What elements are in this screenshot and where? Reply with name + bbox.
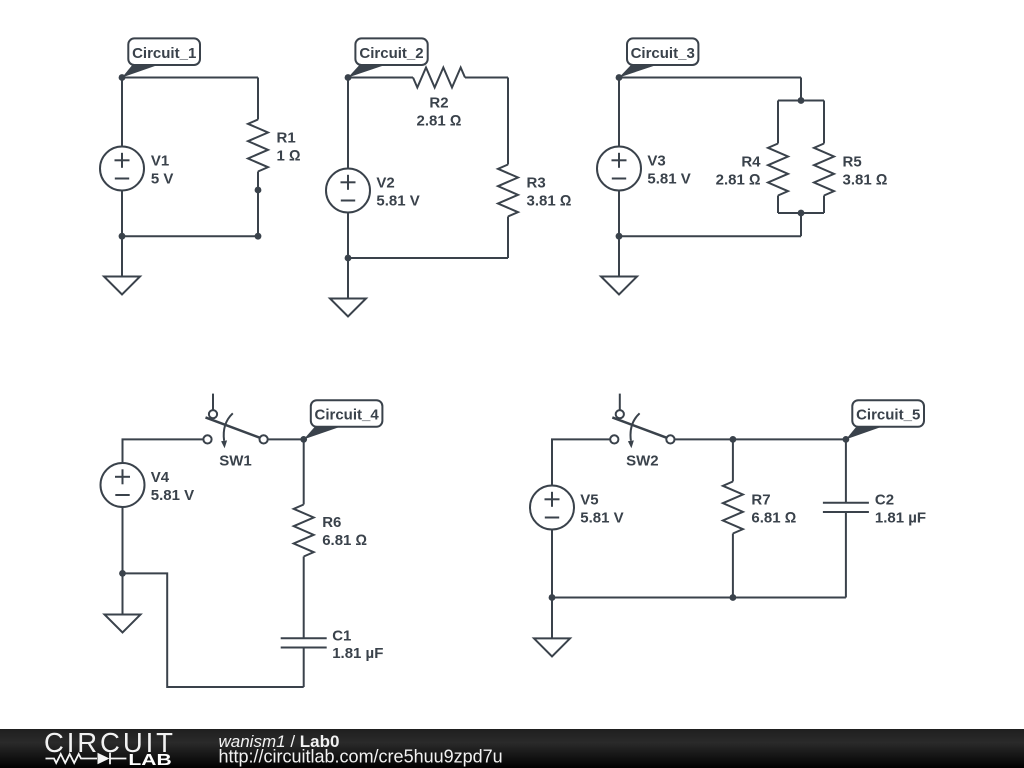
svg-text:Circuit_4: Circuit_4	[314, 407, 379, 424]
svg-text:3.81 Ω: 3.81 Ω	[843, 172, 888, 189]
wire right upper C1	[257, 78, 259, 120]
svg-text:V1: V1	[151, 153, 169, 170]
wire R4 bottom lead	[777, 196, 779, 214]
node dot label anchor C1	[119, 74, 126, 81]
svg-text:V3: V3	[647, 153, 665, 170]
svg-text:5.81 V: 5.81 V	[580, 510, 623, 527]
node dot bottom R7	[730, 594, 737, 601]
wire right lower C3	[800, 213, 802, 236]
wire parallel bottom bar C3	[778, 212, 824, 214]
svg-text:3.81 Ω: 3.81 Ω	[527, 193, 572, 210]
wire right upper C2	[507, 78, 509, 165]
svg-text:Circuit_3: Circuit_3	[631, 45, 695, 62]
label V5	[580, 492, 623, 527]
wire C2 bottom lead	[845, 512, 847, 598]
node dot below R1	[255, 187, 262, 194]
wire bottom C5	[552, 597, 846, 599]
logo resistor-diode glyph	[46, 753, 127, 765]
capacitor C2	[823, 503, 869, 512]
svg-text:V2: V2	[376, 175, 394, 192]
svg-text:SW1: SW1	[219, 452, 252, 469]
label R3	[527, 175, 572, 210]
wire R6 top lead	[303, 439, 305, 504]
label R6	[322, 514, 367, 549]
wire top C1	[122, 77, 258, 79]
label C2	[875, 492, 926, 527]
node dot bottom-right C1	[255, 233, 262, 240]
svg-text:5 V: 5 V	[151, 171, 174, 188]
label R1	[277, 130, 301, 165]
node dot bottom-left C1	[119, 233, 126, 240]
wire bottom C4	[123, 573, 304, 687]
svg-text:V4: V4	[151, 469, 170, 486]
wire R7 top lead	[732, 439, 734, 481]
resistor R4	[768, 144, 788, 196]
resistor R3	[498, 165, 518, 217]
svg-text:R3: R3	[527, 175, 546, 192]
svg-text:R6: R6	[322, 514, 341, 531]
svg-text:2.81 Ω: 2.81 Ω	[716, 172, 761, 189]
svg-text:2.81 Ω: 2.81 Ω	[417, 113, 462, 130]
wire bottom C2	[348, 257, 508, 259]
svg-text:6.81 Ω: 6.81 Ω	[751, 510, 796, 527]
svg-text:http://circuitlab.com/cre5huu9: http://circuitlab.com/cre5huu9zpd7u	[219, 747, 503, 767]
voltage source V3	[597, 147, 641, 191]
svg-text:SW2: SW2	[626, 452, 659, 469]
node dot label anchor C5	[843, 436, 850, 443]
ground C2	[330, 258, 366, 317]
resistor R5	[814, 144, 834, 196]
label Circuit_2	[348, 38, 428, 77]
wire left upper C2	[347, 78, 349, 169]
node dot bottom-left C5	[549, 594, 556, 601]
svg-text:1.81 µF: 1.81 µF	[875, 510, 926, 527]
wire left lower C1	[121, 191, 123, 237]
wire R4 top lead	[777, 101, 779, 144]
switch SW1	[203, 394, 267, 449]
wire R6 to C1	[303, 557, 305, 639]
wire bottom C3	[619, 235, 801, 237]
capacitor C1	[281, 638, 327, 647]
svg-text:6.81 Ω: 6.81 Ω	[322, 532, 367, 549]
wire switch to R7 node C5	[675, 438, 733, 440]
label V1	[151, 153, 174, 188]
label R2	[417, 95, 462, 130]
node dot parallel top C3	[798, 97, 805, 104]
svg-text:Circuit_1: Circuit_1	[132, 45, 196, 62]
wire V4 to switch C4	[123, 439, 204, 463]
resistor R2	[413, 68, 465, 88]
label V4	[151, 469, 194, 504]
wire R7 bottom lead	[732, 534, 734, 598]
resistor R7	[723, 482, 743, 534]
label C1	[332, 628, 383, 663]
label V2	[376, 175, 419, 210]
ground C5	[534, 598, 570, 657]
voltage source V2	[326, 169, 370, 213]
wire left lower C2	[347, 213, 349, 259]
svg-text:C2: C2	[875, 492, 894, 509]
voltage source V5	[530, 486, 574, 530]
label Circuit_3	[619, 38, 698, 77]
voltage source V4	[101, 463, 145, 507]
wire right lower C2	[507, 217, 509, 259]
node dot label anchor C2	[345, 74, 352, 81]
wire V4 bottom	[122, 507, 124, 573]
wire right lower C1	[257, 190, 259, 236]
svg-text:R7: R7	[751, 492, 770, 509]
svg-text:V5: V5	[580, 492, 598, 509]
wire switch to node C4	[268, 438, 304, 440]
svg-text:C1: C1	[332, 628, 351, 645]
wire top-left C2	[348, 77, 413, 79]
svg-text:5.81 V: 5.81 V	[376, 193, 419, 210]
wire R7 node to C2 node	[733, 438, 846, 440]
wire V5 to switch C5	[552, 439, 610, 485]
wire R1 bottom lead	[257, 172, 259, 191]
wire left upper C3	[618, 78, 620, 147]
ground C1	[104, 236, 140, 294]
ground C4	[105, 573, 141, 632]
svg-text:5.81 V: 5.81 V	[647, 171, 690, 188]
wire bottom C1	[122, 235, 258, 237]
wire top C3	[619, 77, 801, 79]
resistor R1	[248, 120, 268, 172]
node dot bottom C2	[345, 255, 352, 262]
ground C3	[601, 236, 637, 294]
wire V5 bottom	[551, 530, 553, 598]
label Circuit_1	[122, 38, 200, 77]
wire parallel top bar C3	[778, 100, 824, 102]
switch SW2	[610, 394, 674, 449]
resistor R6	[294, 505, 314, 557]
node dot R7 top	[730, 436, 737, 443]
wire C2 top lead	[845, 439, 847, 502]
wire R5 bottom lead	[823, 196, 825, 214]
svg-text:5.81 V: 5.81 V	[151, 487, 194, 504]
node dot bottom C3	[616, 233, 623, 240]
wire left upper C1	[121, 78, 123, 147]
label R5	[843, 154, 888, 189]
node dot bottom C4	[119, 570, 126, 577]
node dot label anchor C3	[616, 74, 623, 81]
svg-text:R5: R5	[843, 154, 862, 171]
node dot parallel bottom C3	[798, 210, 805, 217]
svg-text:1.81 µF: 1.81 µF	[332, 645, 383, 662]
node dot label anchor C4	[300, 436, 307, 443]
voltage source V1	[100, 147, 144, 191]
svg-text:R2: R2	[429, 95, 448, 112]
svg-text:Circuit_5: Circuit_5	[856, 407, 920, 424]
svg-text:LAB: LAB	[128, 751, 171, 768]
label Circuit_5	[846, 400, 924, 439]
svg-text:R1: R1	[277, 130, 296, 147]
label V3	[647, 153, 690, 188]
svg-text:R4: R4	[741, 154, 761, 171]
label R7	[751, 492, 796, 527]
wire right drop C3	[800, 78, 802, 101]
label Circuit_4	[304, 400, 383, 439]
wire C1 bottom lead	[303, 648, 305, 688]
wire R5 top lead	[823, 101, 825, 144]
svg-text:1 Ω: 1 Ω	[277, 148, 301, 165]
svg-text:Circuit_2: Circuit_2	[359, 45, 423, 62]
label R4	[716, 154, 762, 189]
wire top-right C2	[465, 77, 508, 79]
wire left lower C3	[618, 191, 620, 237]
